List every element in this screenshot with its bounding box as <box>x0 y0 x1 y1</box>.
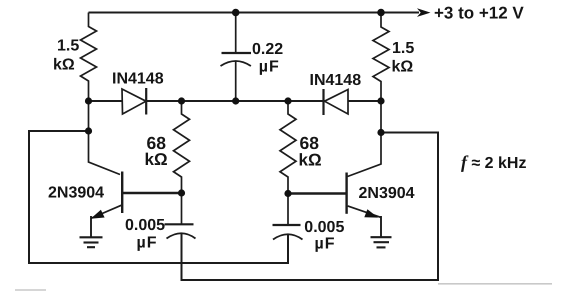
svg-text:f ≈ 2 kHz: f ≈ 2 kHz <box>461 152 526 172</box>
svg-text:IN4148: IN4148 <box>310 72 362 89</box>
svg-text:2N3904: 2N3904 <box>48 185 104 202</box>
svg-text:0.005: 0.005 <box>125 217 165 234</box>
svg-text:0.22: 0.22 <box>252 41 283 58</box>
svg-text:kΩ: kΩ <box>299 151 322 170</box>
svg-text:µF: µF <box>315 236 336 253</box>
svg-text:µF: µF <box>259 59 280 76</box>
svg-text:kΩ: kΩ <box>392 59 414 76</box>
svg-text:µF: µF <box>137 235 158 252</box>
svg-text:2N3904: 2N3904 <box>359 185 415 202</box>
svg-text:IN4148: IN4148 <box>112 71 164 88</box>
svg-text:kΩ: kΩ <box>145 150 168 169</box>
svg-text:1.5: 1.5 <box>57 38 79 55</box>
svg-text:+3 to +12 V: +3 to +12 V <box>434 4 524 23</box>
svg-text:kΩ: kΩ <box>53 57 75 74</box>
svg-text:1.5: 1.5 <box>392 40 414 57</box>
svg-text:0.005: 0.005 <box>304 219 344 236</box>
